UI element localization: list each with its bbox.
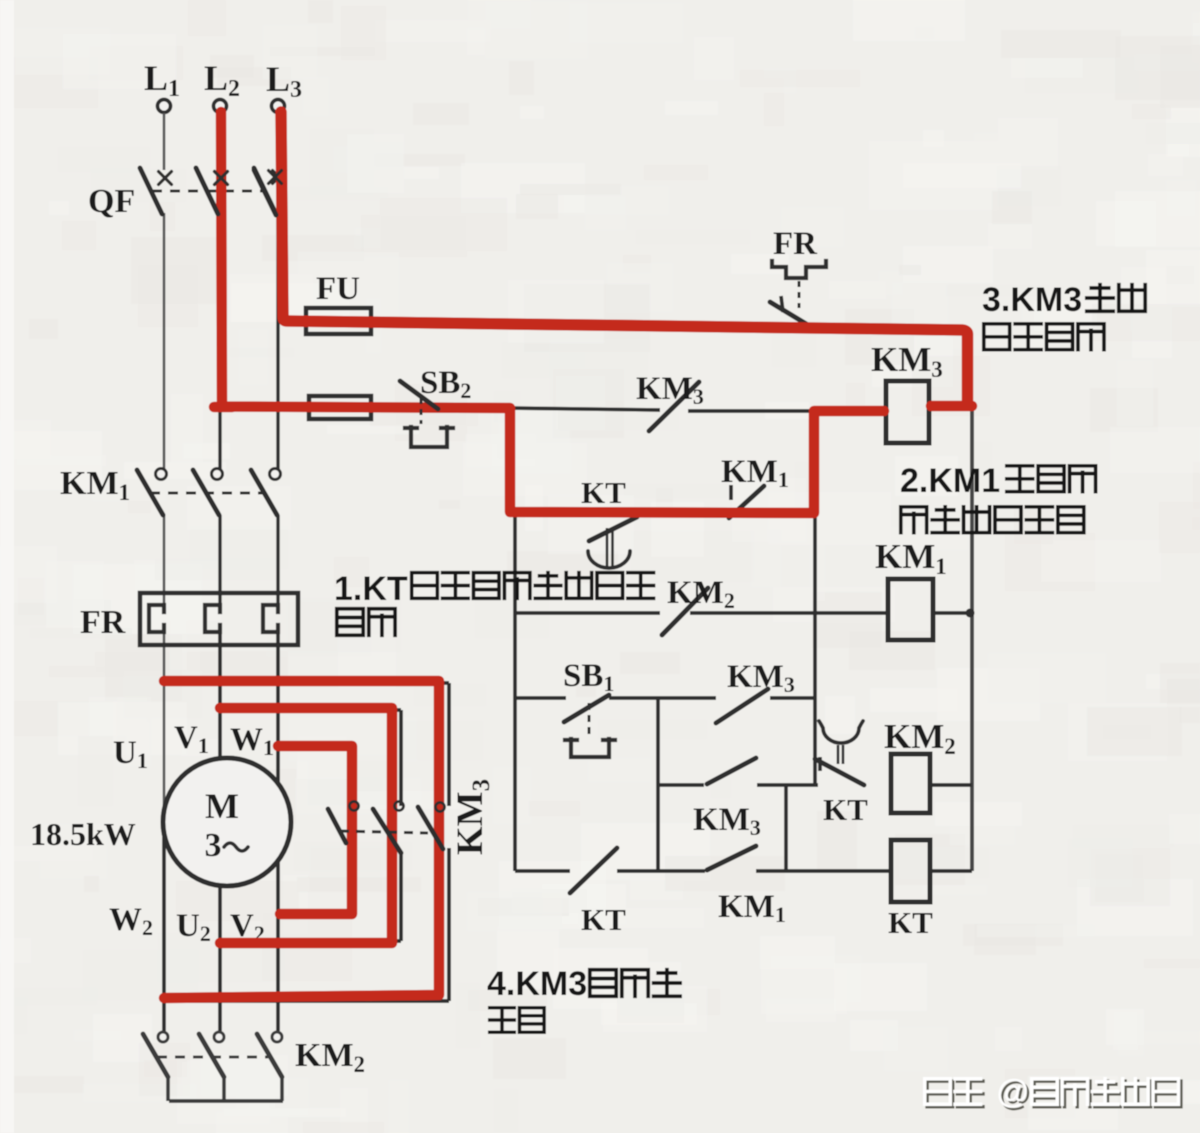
svg-text:FR: FR xyxy=(773,226,818,262)
svg-text:1.KT: 1.KT xyxy=(334,570,408,608)
svg-text:3.KM3: 3.KM3 xyxy=(982,281,1082,319)
svg-text:FR: FR xyxy=(80,604,126,641)
svg-text:KT: KT xyxy=(823,792,868,827)
svg-text:KT: KT xyxy=(581,902,626,937)
svg-text:2.KM1: 2.KM1 xyxy=(900,462,1000,500)
svg-text:3: 3 xyxy=(205,827,222,864)
svg-text:KT: KT xyxy=(888,905,933,940)
svg-text:18.5kW: 18.5kW xyxy=(30,816,136,852)
svg-text:KT: KT xyxy=(581,475,626,510)
svg-text:QF: QF xyxy=(88,183,135,220)
svg-text:M: M xyxy=(205,786,239,826)
svg-text:@: @ xyxy=(997,1073,1029,1110)
svg-text:4.KM3: 4.KM3 xyxy=(487,965,587,1003)
svg-text:FU: FU xyxy=(316,271,360,307)
